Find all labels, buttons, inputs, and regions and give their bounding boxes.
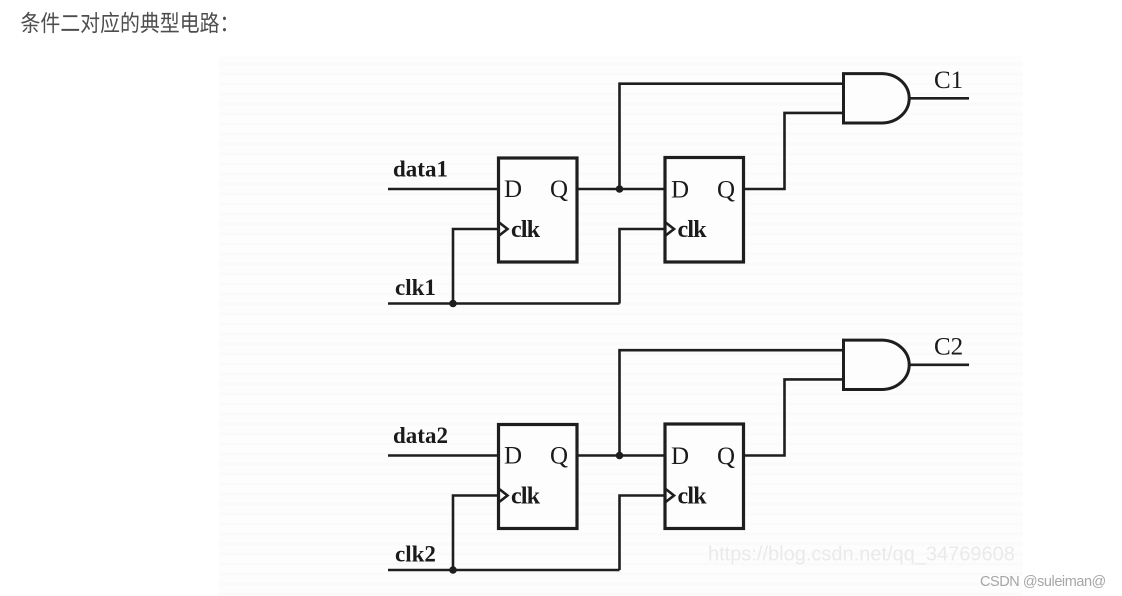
wire junction to U1 clk <box>453 229 499 304</box>
wire U4.Q to G2 bottom input <box>744 379 844 455</box>
svg-text:Q: Q <box>550 176 568 203</box>
svg-text:D: D <box>671 443 689 470</box>
AND gate G2 <box>844 340 910 389</box>
svg-text:https://blog.csdn.net/qq_34769: https://blog.csdn.net/qq_34769608 <box>708 544 1015 566</box>
node junction dot 1A <box>616 185 624 193</box>
node junction dot 1B <box>449 300 457 308</box>
wire junction to U3 clk <box>453 496 499 571</box>
U3 clk edge triangle <box>499 489 508 503</box>
svg-text:Q: Q <box>550 443 568 470</box>
wire node to G2 top input <box>620 350 844 455</box>
svg-text:data1: data1 <box>393 157 448 182</box>
svg-text:D: D <box>504 443 522 470</box>
svg-text:Q: Q <box>717 177 735 204</box>
node junction dot 2A <box>616 452 624 460</box>
svg-text:Q: Q <box>717 443 735 470</box>
wire node to G1 top input <box>620 84 844 189</box>
wire clk1 to U2 clk <box>620 229 666 304</box>
svg-text:D: D <box>671 177 689 204</box>
svg-text:data2: data2 <box>393 423 448 448</box>
svg-text:clk: clk <box>511 484 541 510</box>
wire clk1 input <box>388 302 620 305</box>
AND gate G1 <box>844 74 910 123</box>
U2 clk edge triangle <box>665 222 674 236</box>
wire data1 input <box>388 188 499 191</box>
svg-text:D: D <box>504 176 522 203</box>
svg-text:CSDN @suleiman@: CSDN @suleiman@ <box>980 574 1106 590</box>
U3 body <box>499 425 578 529</box>
wire U2.Q to G1 bottom input <box>744 113 844 189</box>
wire clk2 input <box>388 569 620 572</box>
wire G2 output <box>909 363 969 366</box>
node junction dot 2B <box>449 566 457 574</box>
svg-text:clk1: clk1 <box>395 275 436 300</box>
U4 body <box>665 424 744 529</box>
D flip-flop U1 <box>499 158 578 262</box>
svg-text:C1: C1 <box>934 67 963 94</box>
svg-text:clk2: clk2 <box>395 542 436 567</box>
scanned figure background <box>219 56 1023 596</box>
D flip-flop U4 <box>665 424 744 529</box>
U4 clk edge triangle <box>665 489 674 503</box>
D flip-flop U3 <box>499 425 578 529</box>
svg-text:C2: C2 <box>934 334 963 361</box>
wire U1.Q to U2.D <box>577 188 665 191</box>
page title 条件二对应的典型电路： <box>21 12 226 34</box>
D flip-flop U2 <box>665 158 744 263</box>
svg-text:clk: clk <box>678 484 708 510</box>
svg-text:clk: clk <box>511 217 541 243</box>
wire clk2 to U4 clk <box>620 496 666 571</box>
wire data2 input <box>388 454 499 457</box>
U1 clk edge triangle <box>499 222 508 236</box>
U1 body <box>499 158 578 262</box>
svg-text:clk: clk <box>678 217 708 243</box>
U2 body <box>665 158 744 263</box>
wire G1 output <box>909 97 969 100</box>
wire U3.Q to U4.D <box>577 454 665 457</box>
